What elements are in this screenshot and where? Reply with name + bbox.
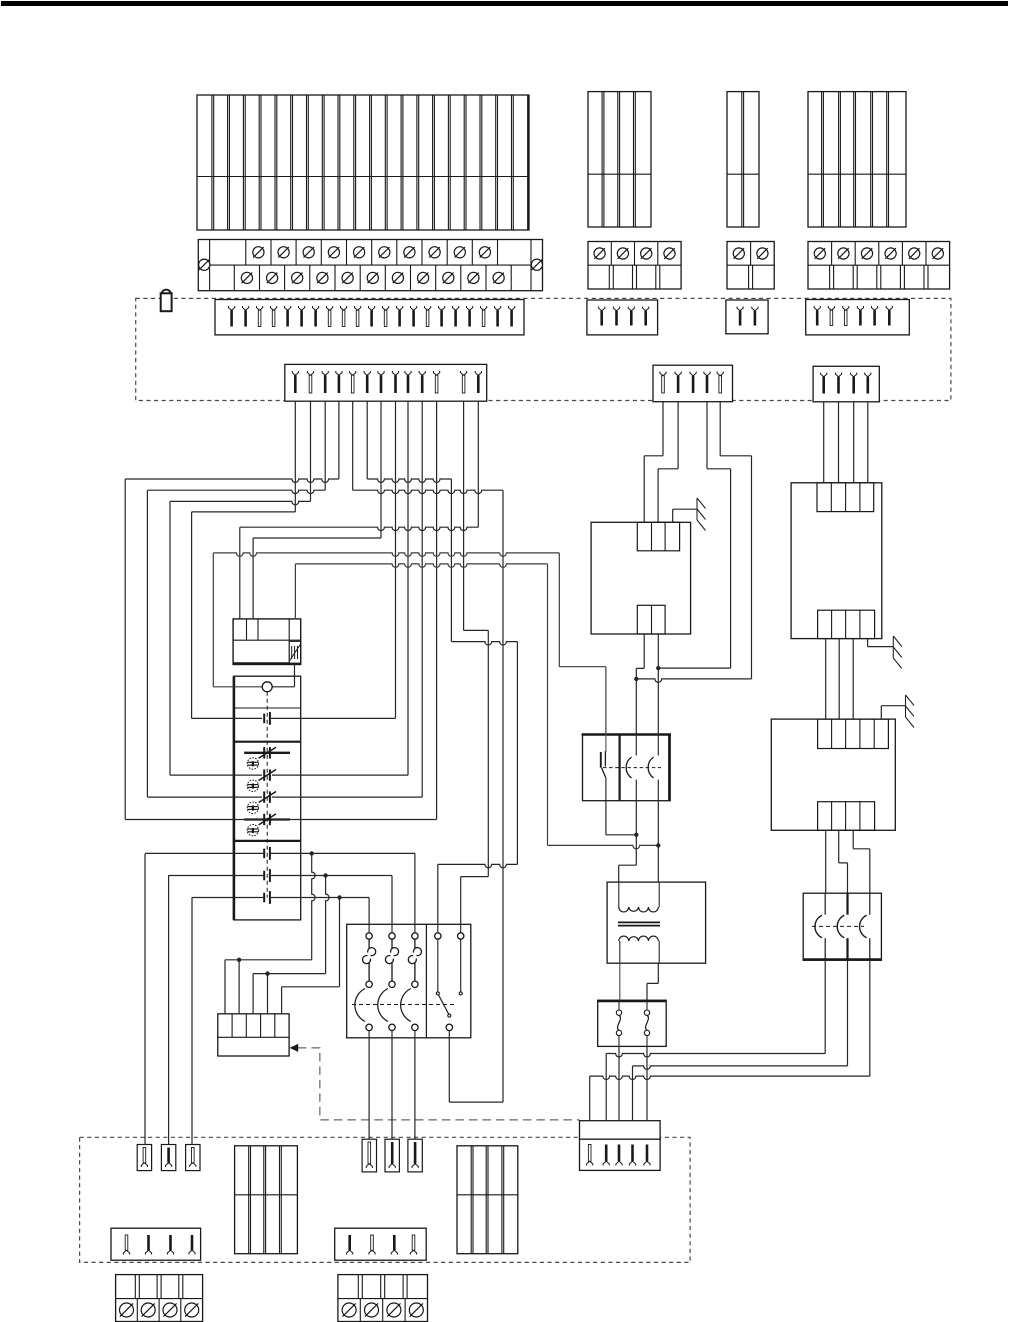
connector CN10 (4-pin) [111, 1228, 201, 1260]
wire CN5 pin13 to relay RY1 coil A [240, 401, 478, 619]
connector CN4 pins [814, 306, 820, 310]
wire U3 to U4 line 1 [825, 639, 827, 720]
contact S0 (door interlock) [263, 714, 265, 724]
wire U3 to U4 line 2 [838, 639, 840, 720]
connector CN6 housing (5-pin) [653, 365, 733, 402]
terminal strip TS1 screws [199, 259, 210, 270]
wire contact S7 row to contactor pole 1 and accessory [192, 897, 369, 1144]
power connector CN9 pins [587, 1161, 593, 1165]
connector CN11 (4-pin) [335, 1228, 427, 1260]
breaker switch S4 [244, 818, 290, 820]
transformer T1 body [607, 882, 706, 963]
fuse holder icon on enclosure boundary [161, 293, 172, 311]
wire fuse F2 right to CN9 pin5 [646, 1046, 648, 1120]
lamp socket LS1 [137, 1145, 151, 1171]
wire capacitor C1 to CN9 pin2 [606, 960, 825, 1120]
lamp socket LS3 [186, 1145, 200, 1171]
connector CN2 pins [599, 307, 605, 311]
terminal strip TS2 body [588, 242, 681, 290]
connector CN6 pins [660, 372, 666, 376]
wire lamp LP1 right lead to thermal cutout F1 [272, 665, 294, 687]
dashed enclosure box (bottom external boundary) [80, 1137, 691, 1262]
wire transformer secondary right to fuse F2 [647, 963, 658, 1000]
connector CN5 housing (13-pin harness) [285, 364, 487, 401]
wire CN5 pin12 to contactor aux pole B [461, 401, 489, 924]
wire CN5 pin11 to breaker S4 right side [272, 401, 437, 819]
thermal cutout F1 (hatched cell) [289, 641, 300, 663]
wire capacitor C2 to CN9 pin4 [633, 960, 848, 1120]
terminal strip TS3 body [727, 242, 774, 290]
inverter unit U3 [791, 483, 882, 639]
wire CN5 pin6 to contactor aux pole A [367, 401, 517, 924]
wire CN5 pin5 to contactor aux common [353, 401, 503, 1102]
wire thermal cutout F1 top to U5 node (long run) [295, 564, 658, 849]
black header bar [1, 1, 1008, 6]
connector CN3 pins [737, 307, 743, 311]
lamp assembly block LB2 [457, 1146, 518, 1254]
chassis ground G2 [892, 636, 894, 658]
wire CN6 pin1 to unit U2 input A [644, 402, 663, 523]
noise filter U5 body [583, 735, 671, 801]
wire CN7 pin4 to inverter U3 [867, 402, 869, 483]
connector CN1 pins [229, 306, 235, 310]
wire contactor pole 3 to power tab P3 [414, 1038, 416, 1139]
wire CN6 pin5 to U2 output node B [636, 402, 751, 683]
wire contactor pole 1 to power tab P1 [368, 1038, 370, 1139]
wire CN5 pin8 to contact S0 right side [270, 401, 396, 718]
wire U2 to chassis ground [673, 509, 697, 522]
wire capacitor C3 to CN9 pin1 [590, 960, 870, 1120]
fuse unit F2 body [598, 1000, 667, 1046]
dash reference line from arrow to power connector [298, 1048, 580, 1120]
terminal block TB2 housing (4-slot) [588, 92, 651, 227]
contactor MC1 main poles with overload elements [352, 1004, 455, 1006]
wire CN5 pin3 to breaker S3 (left loop) [147, 401, 325, 797]
breaker switch S3 [263, 791, 265, 802]
wire CN5 pin2 to breaker S2 (left loop) [170, 401, 311, 775]
power connector CN9 housing [580, 1121, 661, 1140]
accessory connector CN8 [218, 1014, 289, 1056]
lamp assembly block LB1 [235, 1146, 298, 1254]
switch assembly SW1 body [234, 676, 301, 920]
power tab P2 [385, 1139, 399, 1172]
wire U2 output 1 to noise filter [636, 634, 644, 735]
wire U4 to chassis ground [881, 706, 905, 719]
wire transformer secondary left to fuse F2 [619, 963, 621, 1000]
connector CN2 housing (4-pin) [587, 300, 658, 335]
contactor MC1 body [347, 924, 471, 1038]
wire CN5 pin10 to breaker S3 right side [272, 401, 422, 797]
fuse unit F2 fuses [618, 1001, 620, 1010]
wire CN5 pin1 to contact S0 (left loop) [192, 401, 296, 718]
wire U3 to U4 line 3 [852, 639, 854, 720]
contact S6 [263, 871, 265, 881]
wire CN5 pin4 to breaker S4 (left loop) [125, 401, 339, 819]
wire CN7 pin1 to inverter U3 [823, 402, 825, 483]
connector CN4 housing (6-pin) [806, 300, 910, 335]
terminal strip TS6 [338, 1275, 428, 1322]
contactor MC1 auxiliary switch [437, 924, 439, 933]
HV capacitor unit U6 capacitors [824, 893, 826, 915]
terminal block TB3 housing (2-slot) [727, 92, 759, 227]
power tab P1 [362, 1139, 376, 1172]
wire contactor pole 2 to power tab P2 [391, 1038, 393, 1139]
wire CN6 pin4 to U2 output node [658, 402, 730, 668]
wire U4 to capacitor C3 [853, 830, 870, 893]
connector CN3 housing (2-pin) [726, 300, 768, 334]
indicator lamp LP1 [262, 682, 272, 692]
magnetron filter unit U4 [771, 719, 895, 830]
wire fuse F2 left to CN9 pin3 [618, 1046, 620, 1120]
wire CN5 pin7 to relay RY1 coil B [253, 401, 381, 619]
wire contact S5 row to contactor pole 3 and lamp sockets [145, 853, 415, 1144]
breaker switch S2 [263, 769, 265, 780]
wire CN7 pin3 to inverter U3 [853, 402, 855, 483]
wire U3 to chassis ground [868, 639, 894, 647]
terminal strip TS2 screws [594, 248, 605, 259]
wire junction to transformer primary left [619, 801, 637, 882]
junction dots [656, 666, 660, 670]
terminal strip TS4 screws [814, 248, 825, 259]
arrow head pointing at accessory connector [290, 1044, 299, 1052]
contact S5 [263, 849, 265, 859]
switch assembly SW1 actuator dashed line [266, 692, 268, 898]
chassis ground G1 [696, 498, 698, 520]
dashed enclosure box (control panel boundary) [136, 298, 951, 400]
connector CN5 pins [292, 371, 298, 375]
wire CN7 pin2 to inverter U3 [838, 402, 840, 483]
wire lamp LP1 to noise filter switch (long run) [213, 553, 606, 735]
relay RY1 block [233, 619, 301, 665]
breaker switch S1 [244, 752, 290, 754]
power tab P3 [408, 1139, 422, 1172]
connector CN7 pins [821, 373, 827, 377]
wire CN6 pin2 to unit U2 input B [658, 402, 678, 523]
noise filter U5 internals (relay contacts) [600, 752, 602, 768]
wire U4 to capacitor C1 [825, 830, 827, 893]
contact S7 [263, 893, 265, 903]
control unit U2 (door switch unit) [591, 522, 691, 634]
wire noise filter to transformer primary (via junction) [606, 801, 636, 835]
lamp socket LS2 [161, 1145, 175, 1171]
terminal block TB1 housing (21-slot) [197, 95, 529, 230]
wire U4 to capacitor C2 [839, 830, 848, 893]
connector CN1 housing (21-pin) [215, 300, 524, 335]
transformer T1 windings and core [618, 882, 620, 907]
chassis ground G3 [905, 695, 907, 717]
wire CN5 pin9 to breaker S2 right side [272, 401, 408, 775]
terminal strip TS3 screws [733, 248, 744, 259]
terminal strip TS5 [116, 1275, 203, 1322]
connector CN7 housing (4-pin) [813, 366, 879, 402]
terminal block TB4 housing (6-slot) [808, 92, 906, 227]
wire contact S6 row to contactor pole 2 and accessory [169, 875, 392, 1144]
HV capacitor unit U6 body [803, 893, 881, 960]
wire filter to transformer primary right [657, 801, 659, 882]
terminal strip TS1 body [198, 240, 542, 291]
terminal strip TS4 body [808, 242, 950, 290]
wire U2 output 2 to noise filter [657, 634, 659, 735]
